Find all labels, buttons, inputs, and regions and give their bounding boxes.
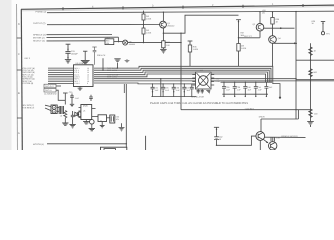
svg-text:C: C bbox=[18, 53, 20, 56]
svg-text:SELECT (2): SELECT (2) bbox=[33, 40, 45, 42]
svg-text:C34: C34 bbox=[154, 87, 158, 89]
rail R37 x=238.5 bbox=[236, 20, 241, 67]
svg-text:XTAL IN (4): XTAL IN (4) bbox=[22, 76, 32, 78]
right caps group bbox=[221, 82, 273, 96]
net flag boxes bbox=[44, 84, 56, 88]
svg-text:MOTOR (2): MOTOR (2) bbox=[33, 37, 44, 39]
zone tick 1 bbox=[62, 7, 64, 10]
ground tick x127 bbox=[125, 59, 130, 63]
svg-text:SYS CLK (4): SYS CLK (4) bbox=[22, 69, 33, 71]
svg-text:2W: 2W bbox=[146, 29, 149, 31]
wire bus3 bbox=[94, 70, 269, 82]
opto Q5 bbox=[123, 40, 128, 45]
wire C42 to Q6 base bbox=[217, 136, 257, 145]
svg-text:14: 14 bbox=[87, 72, 89, 74]
page background bbox=[0, 0, 334, 150]
resistor ladder x310.5 bbox=[309, 43, 312, 121]
svg-text:+5V: +5V bbox=[216, 78, 219, 80]
Q6 emitter arrow bbox=[263, 139, 268, 142]
ground under C29 bbox=[65, 60, 71, 64]
svg-text:1.00K: 1.00K bbox=[146, 18, 151, 20]
cap C33 box bbox=[110, 115, 115, 123]
wire row8 jog bbox=[94, 82, 196, 85]
svg-text:1K: 1K bbox=[312, 23, 314, 25]
capacitor C29 bbox=[65, 52, 70, 60]
svg-text:100: 100 bbox=[314, 113, 317, 115]
svg-text:2N3906: 2N3906 bbox=[129, 43, 135, 45]
wire L1 +5V top rail bbox=[47, 11, 334, 13]
svg-text:13: 13 bbox=[87, 74, 89, 76]
transistor Q6 bbox=[256, 132, 265, 141]
capacitor C30 bbox=[70, 94, 74, 107]
svg-text:GND: GND bbox=[216, 80, 220, 82]
svg-text:RPL SPS (7): RPL SPS (7) bbox=[22, 104, 34, 106]
wire right y79.7 bbox=[296, 79, 334, 81]
svg-text:CLK 4: CLK 4 bbox=[74, 74, 79, 76]
svg-text:C37: C37 bbox=[186, 87, 190, 89]
svg-text:15: 15 bbox=[87, 69, 89, 71]
svg-text:U5: U5 bbox=[83, 110, 85, 112]
svg-text:12: 12 bbox=[87, 76, 89, 78]
svg-text:C40: C40 bbox=[247, 86, 251, 88]
svg-text:B: B bbox=[18, 92, 20, 95]
svg-text:TP1: TP1 bbox=[326, 33, 330, 35]
zone letters top bbox=[92, 3, 274, 8]
svg-text:1K: 1K bbox=[60, 115, 62, 117]
small cap x91 bbox=[89, 95, 93, 101]
svg-text:Q2: Q2 bbox=[253, 23, 256, 25]
svg-text:+5V: +5V bbox=[262, 10, 266, 12]
svg-text:11: 11 bbox=[87, 78, 89, 80]
left caps group bbox=[151, 79, 197, 97]
wire bus5 bbox=[94, 74, 266, 82]
wire right y60 bbox=[296, 59, 334, 61]
svg-text:OSC OUT: OSC OUT bbox=[45, 85, 54, 87]
wire bus4 bbox=[94, 72, 267, 82]
svg-text:REF 2: REF 2 bbox=[25, 57, 30, 59]
rail x272.5 with R38 bbox=[271, 12, 274, 36]
svg-text:OSC 14.3M: OSC 14.3M bbox=[107, 69, 117, 71]
svg-text:XTAL OSC (4): XTAL OSC (4) bbox=[22, 67, 35, 69]
transistor Q4 bbox=[269, 36, 277, 44]
svg-text:.1UF: .1UF bbox=[258, 89, 262, 91]
vertical x126.3 bbox=[125, 84, 127, 147]
svg-text:1.00K: 1.00K bbox=[193, 48, 198, 50]
svg-text:C29: C29 bbox=[71, 51, 75, 53]
ground under R31 bbox=[62, 123, 68, 125]
ground under X1 bbox=[100, 122, 105, 128]
ground flag right of box bbox=[114, 59, 120, 68]
svg-text:C33: C33 bbox=[116, 116, 120, 118]
svg-text:XTL 2: XTL 2 bbox=[74, 69, 79, 71]
svg-text:2: 2 bbox=[212, 4, 214, 7]
svg-text:10K: 10K bbox=[106, 42, 109, 44]
wire Q1 collector to +5V bbox=[162, 12, 164, 21]
svg-text:C35: C35 bbox=[165, 87, 169, 89]
terminal C29 top bbox=[66, 44, 71, 51]
frame left border bbox=[21, 9, 22, 150]
svg-text:R39: R39 bbox=[312, 20, 316, 22]
ground below R35 bbox=[160, 49, 166, 53]
transistor Q1 bbox=[160, 21, 167, 28]
zone tick 4 bbox=[242, 5, 244, 8]
wire bus1 bbox=[94, 66, 280, 97]
svg-text:500: 500 bbox=[314, 72, 317, 74]
IC U3 box bbox=[74, 65, 94, 87]
svg-text:RES 1: RES 1 bbox=[74, 67, 79, 69]
svg-text:C41: C41 bbox=[258, 86, 262, 88]
test point x310.5 top bbox=[321, 22, 325, 35]
transistor Q7 bbox=[269, 142, 277, 150]
wire Q2 emitter down bbox=[259, 31, 261, 38]
svg-text:.1UF: .1UF bbox=[165, 89, 169, 91]
long vertical x296 bbox=[295, 12, 297, 119]
wire long vertical x181 bbox=[180, 33, 182, 110]
wires from U3 right pins / bus bbox=[94, 66, 334, 97]
wire Q6 collector bbox=[260, 119, 262, 132]
capacitor C31 bbox=[69, 111, 75, 128]
svg-text:OSCILLATOR: OSCILLATOR bbox=[192, 96, 204, 98]
diode D2 bbox=[75, 112, 79, 116]
svg-text:2W: 2W bbox=[146, 15, 149, 17]
svg-text:SYSTEM (4): SYSTEM (4) bbox=[22, 82, 33, 84]
svg-text:SYS RES (7): SYS RES (7) bbox=[22, 107, 34, 109]
zone letters left bbox=[18, 23, 20, 135]
wire y109.7 bbox=[181, 109, 311, 111]
svg-text:Q4: Q4 bbox=[278, 37, 281, 39]
wire Q2 out right bbox=[264, 27, 295, 29]
junction L2/chain bbox=[143, 24, 144, 25]
symbols under U4 bbox=[197, 89, 211, 94]
svg-text:C42: C42 bbox=[219, 136, 223, 138]
svg-text:.1UF: .1UF bbox=[176, 89, 180, 91]
wire opto out bbox=[128, 42, 181, 44]
wire bus2 bbox=[94, 68, 271, 82]
wire row7 bbox=[94, 80, 334, 82]
svg-text:3: 3 bbox=[152, 5, 154, 8]
svg-text:R38: R38 bbox=[276, 18, 280, 20]
wire Q1 emitter down bbox=[162, 28, 164, 49]
svg-text:Q1: Q1 bbox=[167, 22, 170, 24]
cap hatch above Q7 bbox=[271, 137, 275, 141]
svg-text:DRIVE: DRIVE bbox=[259, 116, 265, 118]
svg-text:GND 5: GND 5 bbox=[74, 76, 80, 78]
svg-text:RESET (4): RESET (4) bbox=[22, 80, 32, 82]
resistor R31 bbox=[64, 111, 67, 118]
wire R30 stub bbox=[102, 58, 104, 70]
zone tick 2 bbox=[122, 6, 124, 9]
svg-text:1K: 1K bbox=[276, 21, 279, 23]
frame top border bbox=[21, 5, 334, 9]
box R33 bbox=[105, 39, 114, 45]
wire box to Q5 bbox=[114, 41, 123, 43]
wire branch y43.3 bbox=[273, 42, 298, 44]
svg-text:OSC IN: OSC IN bbox=[45, 90, 52, 92]
left pin labels stack bbox=[22, 67, 35, 84]
svg-text:(2): (2) bbox=[262, 12, 265, 14]
wires into U3 left pins bbox=[48, 68, 74, 83]
svg-text:.1UF: .1UF bbox=[75, 97, 79, 99]
svg-text:PWR IN 14.3: PWR IN 14.3 bbox=[107, 67, 118, 69]
U3 top ground taper bbox=[81, 51, 90, 64]
svg-text:C39: C39 bbox=[237, 86, 241, 88]
svg-text:OUTPUT (2): OUTPUT (2) bbox=[33, 22, 45, 24]
svg-text:XTL 3: XTL 3 bbox=[74, 72, 79, 74]
svg-text:1K: 1K bbox=[314, 50, 317, 52]
svg-text:PWR GND (4): PWR GND (4) bbox=[22, 71, 35, 73]
connector J1 bbox=[51, 105, 57, 114]
vertical x298.4 bbox=[297, 110, 299, 119]
svg-text:U4: U4 bbox=[200, 69, 203, 71]
svg-text:REF CLK (4): REF CLK (4) bbox=[22, 74, 33, 76]
capacitor C28 stub bbox=[92, 47, 96, 65]
zone tick 5 bbox=[302, 4, 304, 7]
svg-text:1000pF: 1000pF bbox=[71, 53, 78, 55]
svg-text:.1UF: .1UF bbox=[186, 89, 190, 91]
ground under U5 bbox=[83, 122, 89, 124]
svg-text:4: 4 bbox=[92, 6, 94, 9]
svg-text:.1UF: .1UF bbox=[237, 89, 241, 91]
svg-text:10: 10 bbox=[219, 138, 221, 140]
svg-text:U3 8224: U3 8224 bbox=[76, 63, 84, 65]
wire x65.3 down bbox=[63, 93, 68, 105]
wires labels to connector bbox=[45, 105, 51, 106]
U3 inner pin text bbox=[74, 67, 89, 84]
svg-text:PLACE CAPS C34 THRU C41 AS CLO: PLACE CAPS C34 THRU C41 AS CLOSE AS POSS… bbox=[150, 102, 248, 105]
vertical x124.3 bbox=[123, 84, 125, 93]
svg-text:C30: C30 bbox=[69, 91, 73, 93]
svg-text:+12V RET: +12V RET bbox=[245, 108, 254, 110]
svg-text:.1UF: .1UF bbox=[268, 86, 272, 88]
left zone divider 1 bbox=[17, 69, 22, 71]
wire Q4 emitter to bus bbox=[272, 43, 274, 66]
svg-text:R33: R33 bbox=[106, 40, 110, 42]
svg-text:C45: C45 bbox=[276, 137, 280, 139]
svg-text:.1UF: .1UF bbox=[247, 89, 251, 91]
svg-text:16: 16 bbox=[87, 67, 89, 69]
bottom cut box bbox=[101, 147, 127, 153]
transformer T1 bbox=[59, 106, 63, 114]
svg-text:100: 100 bbox=[166, 44, 169, 46]
svg-text:R36: R36 bbox=[193, 46, 197, 48]
resistor R35 bbox=[162, 41, 165, 48]
wire L4 bbox=[47, 36, 119, 38]
svg-text:MOTOR (4): MOTOR (4) bbox=[33, 143, 44, 145]
svg-text:4N35: 4N35 bbox=[83, 105, 88, 107]
ground bottom of ladder bbox=[307, 122, 314, 128]
svg-text:2N2222: 2N2222 bbox=[167, 25, 174, 27]
vertical x145.6 bbox=[145, 136, 147, 150]
sheet trim line bbox=[16, 4, 19, 150]
svg-text:A: A bbox=[18, 132, 20, 135]
wire row6 bbox=[94, 78, 296, 80]
rail R36 x=190 bbox=[188, 41, 193, 67]
svg-text:C36: C36 bbox=[176, 87, 180, 89]
U4 oscillator bbox=[192, 75, 214, 86]
zone tick 3 bbox=[182, 6, 184, 9]
svg-text:SYN 8: SYN 8 bbox=[74, 83, 79, 85]
wires connector to transformer bbox=[57, 106, 59, 108]
svg-text:REFRESH (4): REFRESH (4) bbox=[22, 78, 35, 80]
mini ground below U3 bbox=[78, 87, 83, 91]
diode circle D1 bbox=[90, 120, 95, 125]
U5 pin stubs bbox=[79, 108, 99, 122]
svg-text:R35: R35 bbox=[166, 42, 170, 44]
svg-text:1REF: 1REF bbox=[105, 37, 110, 39]
svg-text:D: D bbox=[18, 23, 20, 26]
pin net labels on wires bbox=[107, 67, 118, 78]
ground right of C33 bbox=[119, 123, 125, 131]
svg-text:OSC 14.3M: OSC 14.3M bbox=[107, 76, 117, 78]
svg-text:9: 9 bbox=[87, 83, 88, 85]
wire L3 bbox=[47, 34, 113, 36]
svg-text:PWR IN 14.3: PWR IN 14.3 bbox=[107, 74, 118, 76]
wire Q2 collector up bbox=[259, 12, 261, 24]
svg-text:.1UF: .1UF bbox=[154, 89, 158, 91]
svg-text:TEST PT: TEST PT bbox=[244, 36, 252, 38]
svg-text:SPINDLE (2): SPINDLE (2) bbox=[33, 34, 46, 36]
wire y119 bbox=[261, 118, 298, 120]
svg-text:1.00K: 1.00K bbox=[146, 32, 151, 34]
svg-text:REF 6: REF 6 bbox=[74, 78, 79, 80]
wire U from emitter bbox=[163, 15, 238, 33]
svg-text:14.31818 MHZ: 14.31818 MHZ bbox=[44, 93, 57, 95]
wire L2 bbox=[47, 24, 160, 26]
box X1 bbox=[98, 115, 107, 122]
svg-text:PHASE (2): PHASE (2) bbox=[36, 11, 47, 13]
wire flag stubs bbox=[56, 85, 61, 87]
U5 box bbox=[81, 105, 92, 120]
left zone divider 2 bbox=[17, 117, 22, 119]
svg-text:R37: R37 bbox=[241, 32, 245, 34]
resistor chain x=143.5 bbox=[142, 11, 145, 43]
svg-text:2W: 2W bbox=[241, 45, 244, 47]
svg-text:C38: C38 bbox=[226, 86, 230, 88]
svg-text:SPINDLE MOTOR: SPINDLE MOTOR bbox=[281, 135, 298, 137]
svg-text:10: 10 bbox=[87, 80, 89, 82]
svg-text:RDY 7: RDY 7 bbox=[74, 80, 79, 82]
left scan margin bbox=[0, 0, 12, 150]
terminal C42 bbox=[214, 127, 219, 145]
transistor Q2 bbox=[256, 23, 264, 31]
svg-text:1.00K: 1.00K bbox=[241, 47, 246, 49]
svg-text:R30 4.7K: R30 4.7K bbox=[97, 54, 105, 56]
svg-text:.1UF: .1UF bbox=[226, 89, 230, 91]
wire Q6 out right bbox=[265, 136, 306, 138]
wire testline y37.8 bbox=[239, 37, 260, 39]
svg-text:1: 1 bbox=[272, 3, 274, 6]
svg-text:10V: 10V bbox=[116, 119, 119, 121]
